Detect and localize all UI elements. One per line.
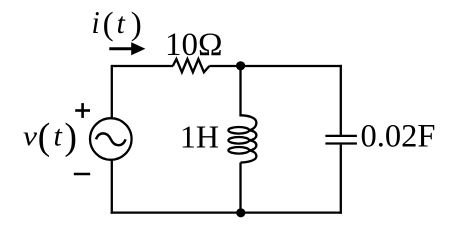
wire middle branch lower — [239, 163, 241, 213]
wire left branch lower — [111, 160, 113, 214]
wire left branch upper — [111, 65, 113, 119]
current arrow — [109, 42, 145, 55]
svg-text:(: ( — [103, 6, 114, 42]
svg-text:i: i — [92, 4, 100, 40]
label i(t) — [92, 4, 142, 42]
wire middle branch upper — [239, 66, 241, 117]
inductor L1 coil — [228, 115, 256, 162]
node dot top junction — [236, 61, 245, 70]
svg-text:): ) — [131, 6, 142, 42]
node dot bottom junction — [236, 208, 245, 217]
capacitor C plates — [325, 136, 357, 144]
source sine wave — [96, 133, 126, 145]
label minus — [74, 173, 90, 176]
source V1 circle — [90, 118, 132, 160]
wire resistor to top-right corner — [209, 65, 342, 67]
svg-text:0.02F: 0.02F — [361, 119, 436, 155]
svg-text:): ) — [64, 116, 77, 158]
svg-text:t: t — [117, 7, 126, 40]
wire top-left segment — [112, 65, 173, 67]
label v(t) — [23, 116, 77, 158]
wire bottom — [111, 211, 342, 213]
label plus — [75, 103, 90, 118]
svg-text:(: ( — [38, 116, 51, 158]
svg-text:v: v — [23, 121, 37, 151]
wire right branch lower — [340, 145, 342, 214]
svg-text:1H: 1H — [180, 118, 219, 154]
wire right branch upper — [340, 65, 342, 135]
resistor R 10ohm — [173, 59, 210, 72]
svg-text:t: t — [54, 120, 63, 153]
svg-text:10Ω: 10Ω — [165, 27, 223, 63]
